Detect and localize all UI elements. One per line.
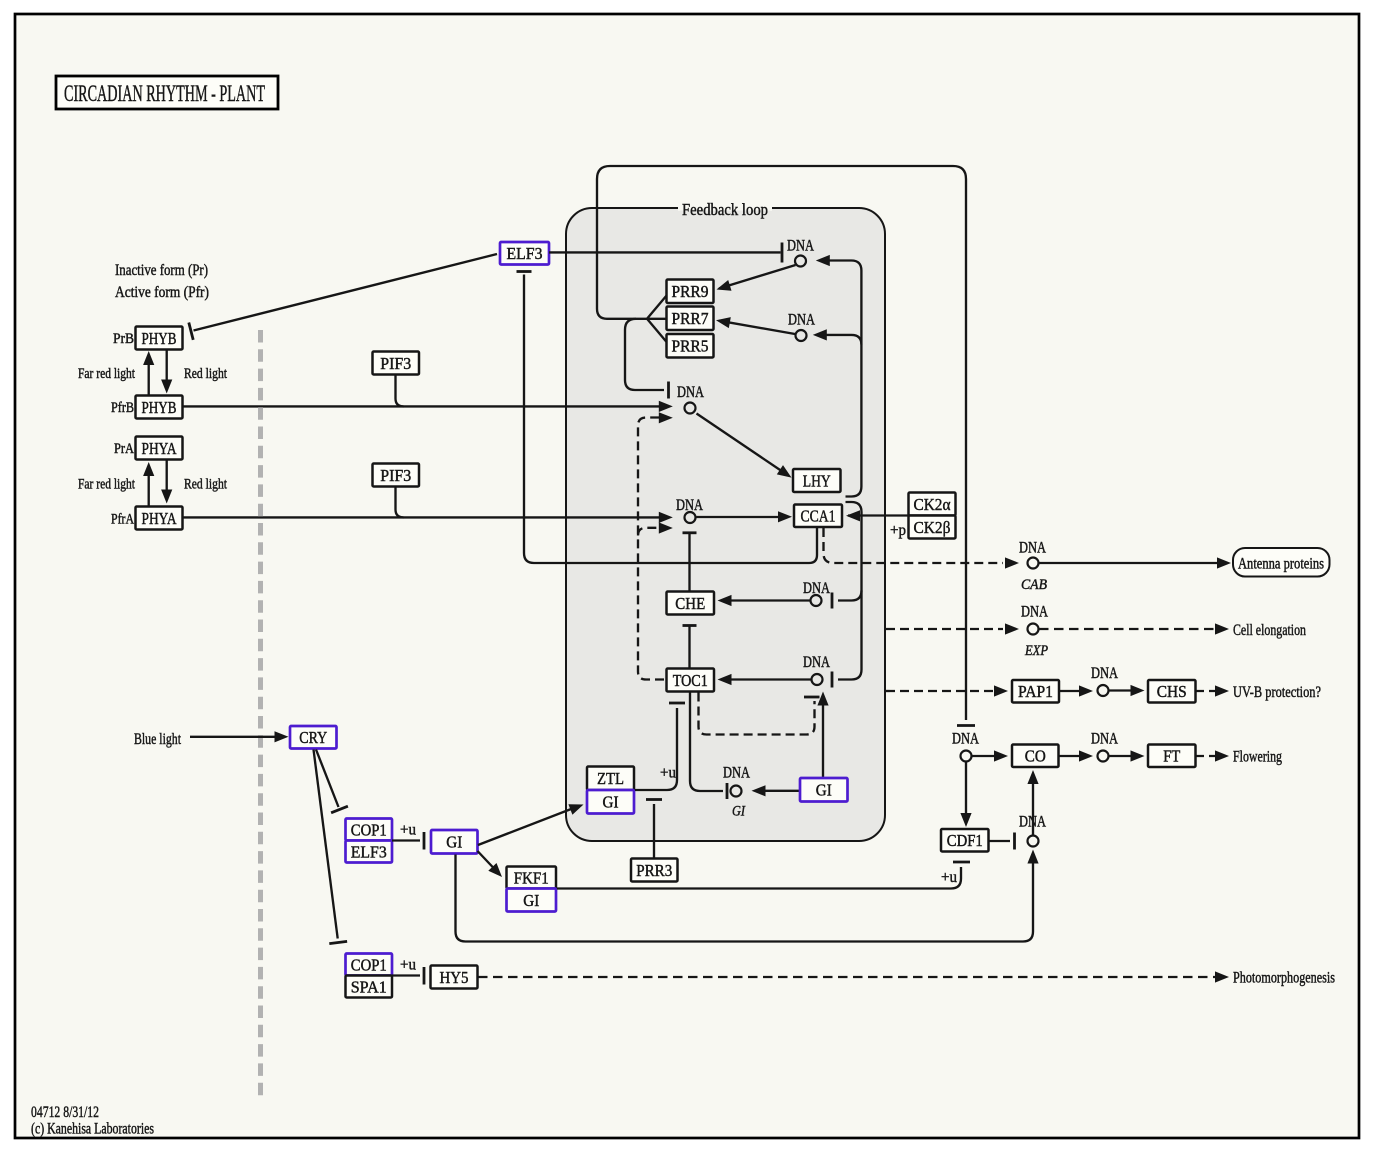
gene box PHYA inactive bbox=[136, 437, 183, 460]
svg-text:ELF3: ELF3 bbox=[351, 842, 387, 861]
feedback loop panel bbox=[566, 206, 885, 841]
gene box PIF3 upper bbox=[373, 352, 420, 375]
svg-text:HY5: HY5 bbox=[440, 968, 469, 987]
gene box CHS bbox=[1148, 680, 1196, 703]
label PfrB bbox=[111, 400, 134, 416]
gene box FT bbox=[1148, 745, 1196, 768]
wire CRY inhibits COP1-SPA1 bbox=[314, 750, 348, 944]
label far red light B bbox=[78, 366, 136, 382]
wire DNA-CO to CO bbox=[972, 750, 1008, 761]
svg-text:Far red light: Far red light bbox=[78, 366, 136, 382]
svg-text:+u: +u bbox=[941, 869, 957, 886]
wire PRRs to DNA3 inhibit bbox=[625, 319, 669, 399]
svg-text:CHE: CHE bbox=[675, 594, 705, 613]
svg-text:DNA: DNA bbox=[803, 654, 830, 671]
node DNA1 bbox=[787, 238, 814, 267]
svg-text:GI: GI bbox=[603, 793, 619, 812]
svg-text:PHYA: PHYA bbox=[142, 439, 178, 458]
wire DNA3 to LHY bbox=[697, 414, 792, 478]
svg-text:Photomorphogenesis: Photomorphogenesis bbox=[1233, 970, 1335, 987]
wire CDF1 inhibits DNA-CDF1 bbox=[989, 833, 1015, 850]
svg-text:DNA: DNA bbox=[723, 765, 750, 782]
wire PfrA to DNA4 bbox=[183, 512, 673, 523]
node DNA CHE bbox=[803, 580, 830, 606]
wire PfrB to DNA3 bbox=[183, 401, 673, 412]
gene box GI loop bbox=[800, 778, 848, 802]
svg-text:+u: +u bbox=[400, 822, 416, 839]
svg-text:GI: GI bbox=[523, 891, 539, 910]
svg-text:CRY: CRY bbox=[299, 728, 327, 747]
output Antenna proteins bbox=[1233, 548, 1330, 577]
wire ZTL-GI inhibits TOC1 bbox=[635, 703, 685, 790]
svg-text:CHS: CHS bbox=[1157, 682, 1187, 701]
svg-text:ELF3: ELF3 bbox=[507, 244, 543, 263]
svg-text:PHYA: PHYA bbox=[142, 509, 178, 528]
svg-text:CAB: CAB bbox=[1021, 577, 1047, 593]
svg-text:DNA: DNA bbox=[1019, 540, 1046, 557]
svg-text:TOC1: TOC1 bbox=[673, 671, 708, 690]
wire DNA to CHS bbox=[1109, 685, 1145, 696]
label +u fkf1 bbox=[941, 869, 957, 886]
wire FT to flowering dashed bbox=[1196, 750, 1229, 761]
gene box GI under FKF1 bbox=[507, 889, 557, 912]
svg-text:Far red light: Far red light bbox=[78, 477, 136, 493]
wire ELF3 inhibits DNA1 bbox=[549, 243, 782, 263]
wire PRR3 inhibits bbox=[646, 800, 662, 859]
wire TOC1 inhibits DNA-GI bbox=[690, 693, 727, 800]
gene box PHYB inactive bbox=[136, 327, 183, 350]
wire DNA-CAB to antenna bbox=[1039, 557, 1231, 568]
wire GI to DNA-TOC1 bbox=[817, 692, 828, 778]
svg-text:PIF3: PIF3 bbox=[380, 466, 411, 485]
wire FKF1-GI +u CDF1 bbox=[557, 862, 970, 889]
wire GI to ZTL-GI bbox=[478, 804, 584, 845]
svg-text:PHYB: PHYB bbox=[142, 329, 177, 348]
footer map id bbox=[31, 1104, 99, 1121]
svg-text:(c) Kanehisa Laboratories: (c) Kanehisa Laboratories bbox=[31, 1121, 154, 1138]
gene box PAP1 bbox=[1012, 680, 1059, 703]
wire dashed loop to DNA-TOC1 bbox=[699, 693, 820, 735]
gene box GI under ZTL bbox=[587, 790, 634, 814]
gene box CRY bbox=[290, 726, 337, 749]
svg-text:CK2β: CK2β bbox=[914, 518, 951, 537]
arrow PHYB down bbox=[161, 351, 172, 394]
node DNA2 bbox=[788, 312, 815, 342]
svg-text:Feedback loop: Feedback loop bbox=[682, 200, 768, 219]
svg-text:FKF1: FKF1 bbox=[514, 868, 549, 887]
wire PRR junction loop bbox=[597, 166, 975, 726]
label uvb protection bbox=[1233, 684, 1321, 701]
gene box TOC1 bbox=[667, 669, 715, 692]
wire DNA-TOC1 to TOC1 bbox=[718, 674, 812, 685]
arrow PHYB up bbox=[143, 351, 154, 395]
svg-text:CIRCADIAN RHYTHM - PLANT: CIRCADIAN RHYTHM - PLANT bbox=[64, 81, 265, 107]
gene box PRR9 bbox=[667, 280, 714, 304]
wire ELF3 inhibits PrB-PHYB bbox=[189, 254, 497, 340]
wire DNA-EXP to cell elongation bbox=[1039, 623, 1229, 634]
gene box FKF1 bbox=[507, 867, 557, 889]
svg-text:Antenna proteins: Antenna proteins bbox=[1238, 556, 1324, 573]
svg-text:DNA: DNA bbox=[952, 731, 979, 748]
wire DNA2 to PRR7 bbox=[716, 317, 795, 334]
node DNA FT bbox=[1091, 731, 1118, 762]
title box CIRCADIAN RHYTHM - PLANT bbox=[56, 76, 278, 109]
svg-text:SPA1: SPA1 bbox=[351, 977, 387, 996]
label red light B bbox=[184, 366, 228, 382]
svg-text:LHY: LHY bbox=[803, 471, 831, 490]
svg-text:PRR5: PRR5 bbox=[672, 337, 709, 356]
label PrB bbox=[113, 331, 134, 347]
label +p bbox=[890, 522, 906, 539]
wire CCA1 down loop bbox=[832, 502, 862, 688]
gene box CDF1 bbox=[941, 829, 989, 852]
svg-text:Red light: Red light bbox=[184, 366, 228, 382]
label cell elongation bbox=[1233, 622, 1306, 639]
svg-text:DNA: DNA bbox=[787, 238, 814, 255]
gene box CK2beta bbox=[909, 516, 956, 539]
label +u ztl bbox=[660, 765, 676, 782]
svg-text:CO: CO bbox=[1025, 747, 1046, 766]
label far red light A bbox=[78, 477, 136, 493]
arrow PHYA up bbox=[143, 462, 154, 506]
svg-text:PRR3: PRR3 bbox=[636, 861, 672, 880]
wire CCA1 inhibits ELF3 bbox=[517, 272, 810, 564]
svg-text:PfrB: PfrB bbox=[111, 400, 134, 416]
label photomorphogenesis bbox=[1233, 970, 1335, 987]
node DNA4 bbox=[676, 497, 703, 523]
gene box PIF3 lower bbox=[373, 464, 420, 487]
node DNA CAB bbox=[1019, 540, 1047, 594]
wire DNA-CO to CDF1 bbox=[960, 762, 971, 827]
node DNA3 bbox=[677, 384, 704, 414]
gene box LHY bbox=[793, 469, 841, 492]
wire GI loop to DNA-CDF1 bbox=[456, 850, 1039, 942]
node DNA GI bbox=[723, 765, 750, 820]
svg-text:CDF1: CDF1 bbox=[947, 831, 983, 850]
gene box GI main bbox=[431, 830, 478, 854]
wire GI to DNA-GI bbox=[752, 785, 801, 796]
label +u cop1spa1 bbox=[400, 957, 416, 974]
wire DNA1 to PRR9 bbox=[717, 265, 796, 291]
svg-text:DNA: DNA bbox=[788, 312, 815, 329]
wire TOC1 inhibits CHE bbox=[683, 626, 697, 669]
label inactive form bbox=[115, 262, 208, 279]
svg-text:PrA: PrA bbox=[114, 441, 134, 457]
wire CO to DNA bbox=[1059, 750, 1093, 761]
svg-text:FT: FT bbox=[1163, 747, 1181, 766]
svg-text:Active form (Pfr): Active form (Pfr) bbox=[115, 284, 209, 301]
wire COP1-SPA1 inhibits HY5 bbox=[392, 967, 424, 985]
svg-text:PHYB: PHYB bbox=[142, 398, 177, 417]
gene box HY5 bbox=[431, 966, 478, 989]
gene box ELF3 bbox=[500, 242, 549, 265]
gene box PRR3 bbox=[631, 859, 678, 882]
wire CHS to UVB dashed bbox=[1196, 685, 1229, 696]
svg-text:PrB: PrB bbox=[113, 331, 134, 347]
svg-text:COP1: COP1 bbox=[351, 955, 387, 974]
wire DNA-CDF1 to CO bbox=[1027, 770, 1038, 835]
svg-text:PfrA: PfrA bbox=[111, 512, 134, 528]
svg-text:DNA: DNA bbox=[677, 384, 704, 401]
svg-text:CK2α: CK2α bbox=[914, 495, 951, 514]
gene box COP1 lower bbox=[346, 954, 393, 976]
wire DNA4 to CCA1 bbox=[697, 511, 793, 522]
svg-text:Blue light: Blue light bbox=[134, 731, 181, 748]
wire PAP1 to DNA bbox=[1060, 685, 1094, 696]
feedback loop label bbox=[682, 200, 768, 219]
gene box CCA1 bbox=[794, 505, 842, 528]
wire GI to FKF1 bbox=[478, 851, 503, 877]
svg-text:Flowering: Flowering bbox=[1233, 749, 1282, 766]
gene box PRR7 bbox=[667, 307, 714, 331]
svg-text:GI: GI bbox=[446, 833, 462, 852]
svg-text:PRR7: PRR7 bbox=[672, 309, 709, 328]
svg-text:Inactive form (Pr): Inactive form (Pr) bbox=[115, 262, 208, 279]
svg-text:Red light: Red light bbox=[184, 477, 228, 493]
footer copyright bbox=[31, 1121, 154, 1138]
gene box CHE bbox=[667, 592, 715, 615]
wire CK2 to CCA1 bbox=[846, 510, 908, 521]
node DNA CHS bbox=[1091, 665, 1118, 696]
label active form bbox=[115, 284, 209, 301]
wire DNA to FT bbox=[1109, 750, 1145, 761]
svg-text:GI: GI bbox=[816, 781, 832, 800]
node DNA CO bbox=[952, 731, 979, 762]
gene box SPA1 bbox=[346, 976, 393, 998]
wire CRY inhibits COP1-ELF3 bbox=[316, 750, 348, 813]
label +u cop1elf3 bbox=[400, 822, 416, 839]
svg-text:DNA: DNA bbox=[1091, 731, 1118, 748]
svg-text:CCA1: CCA1 bbox=[801, 507, 836, 526]
gene box PHYA active bbox=[136, 507, 183, 530]
svg-text:+u: +u bbox=[660, 765, 676, 782]
wire CCA1 down solid bbox=[809, 528, 817, 563]
svg-text:COP1: COP1 bbox=[351, 820, 387, 839]
wire CCA1 to CAB dashed bbox=[824, 528, 1020, 569]
svg-text:GI: GI bbox=[732, 804, 746, 820]
wire HY5 to photomorphogenesis bbox=[478, 971, 1229, 982]
wire TOC1 dashed to DNA3 DNA4 bbox=[638, 412, 673, 679]
gene box CO bbox=[1012, 745, 1059, 768]
svg-text:PAP1: PAP1 bbox=[1018, 682, 1053, 701]
svg-text:Cell elongation: Cell elongation bbox=[1233, 622, 1306, 639]
gene box PRR5 bbox=[667, 334, 714, 358]
svg-text:PIF3: PIF3 bbox=[380, 354, 411, 373]
wire loop to DNA-EXP dashed bbox=[886, 623, 1019, 634]
gene box COP1 upper bbox=[346, 819, 393, 841]
arrow PHYA down bbox=[161, 461, 172, 504]
svg-text:+p: +p bbox=[890, 522, 906, 539]
label flowering bbox=[1233, 749, 1282, 766]
label red light A bbox=[184, 477, 228, 493]
wire DNA-CHE to CHE bbox=[718, 595, 811, 606]
gene box CK2alpha bbox=[909, 493, 956, 516]
svg-text:DNA: DNA bbox=[1021, 604, 1048, 621]
gene box ZTL bbox=[587, 767, 634, 791]
svg-text:ZTL: ZTL bbox=[597, 769, 624, 788]
divider dashed gray line bbox=[258, 330, 263, 1100]
node DNA EXP bbox=[1021, 604, 1048, 660]
node DNA CDF1 bbox=[1019, 814, 1046, 847]
svg-text:UV-B protection?: UV-B protection? bbox=[1233, 684, 1321, 701]
wire PIF3 lower join bbox=[396, 488, 404, 518]
wire COP1-ELF3 inhibits GI bbox=[392, 832, 424, 850]
svg-text:+u: +u bbox=[400, 957, 416, 974]
svg-text:DNA: DNA bbox=[1091, 665, 1118, 682]
wire loop to PAP1 dashed bbox=[886, 685, 1008, 696]
label blue light bbox=[134, 731, 181, 748]
svg-text:PRR9: PRR9 bbox=[672, 282, 709, 301]
wire LHY return up loop bbox=[813, 255, 862, 497]
svg-text:EXP: EXP bbox=[1024, 643, 1048, 659]
gene box PHYB active bbox=[136, 396, 183, 419]
label PfrA bbox=[111, 512, 134, 528]
wire PIF3 upper join bbox=[396, 376, 404, 407]
gene box ELF3 lower bbox=[346, 841, 393, 863]
node DNA TOC1 bbox=[803, 654, 830, 685]
label PrA bbox=[114, 441, 134, 457]
svg-text:04712 8/31/12: 04712 8/31/12 bbox=[31, 1104, 99, 1121]
wire blue light to CRY bbox=[190, 731, 289, 742]
wire DNA4 inhibits CHE bbox=[683, 533, 697, 591]
